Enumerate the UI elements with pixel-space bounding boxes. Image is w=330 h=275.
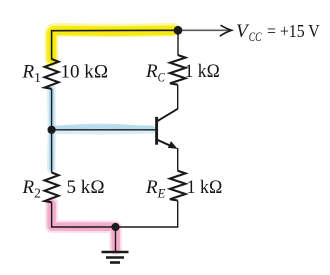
svg-text:= +15 V: = +15 V bbox=[267, 21, 320, 41]
wire: left rail R1 to R2 bbox=[51, 89, 53, 173]
resistor RC (zigzag) bbox=[170, 55, 186, 85]
wire: emitter down to RE bbox=[177, 148, 179, 171]
yellow highlighter over VCC rail bbox=[51, 30, 174, 60]
emitter lead bbox=[157, 140, 174, 148]
node dot at VCC rail bbox=[174, 26, 183, 35]
wire: base wire to transistor bbox=[52, 129, 156, 131]
svg-text:CC: CC bbox=[249, 30, 262, 44]
svg-text:RE: RE bbox=[145, 177, 166, 200]
wire: RC to collector bbox=[177, 85, 179, 109]
svg-text:10 kΩ: 10 kΩ bbox=[61, 61, 109, 82]
resistor R2 (zigzag) bbox=[45, 173, 59, 203]
node A (base divider junction) bbox=[48, 126, 56, 134]
svg-text:R2: R2 bbox=[22, 177, 41, 200]
wire: arrow line to VCC label bbox=[178, 29, 231, 31]
svg-text:1 kΩ: 1 kΩ bbox=[187, 177, 223, 198]
wire: ground stem bbox=[115, 227, 117, 251]
svg-text:1 kΩ: 1 kΩ bbox=[185, 61, 220, 82]
blue highlighter over base node wires bbox=[51, 88, 153, 169]
svg-text:5 kΩ: 5 kΩ bbox=[67, 177, 105, 198]
node dot at ground tap bbox=[111, 223, 119, 231]
pink highlighter over ground wire bbox=[52, 203, 116, 249]
ground symbol bbox=[102, 251, 129, 254]
arrowhead VCC (open) bbox=[220, 25, 232, 36]
emitter arrowhead bbox=[168, 141, 178, 149]
wire: VCC node down to RC bbox=[177, 30, 179, 55]
resistor R1 (zigzag) bbox=[45, 59, 59, 89]
svg-text:R1: R1 bbox=[22, 62, 41, 85]
base bar bbox=[155, 117, 158, 145]
svg-text:RC: RC bbox=[145, 61, 165, 84]
wire: R2 to bottom rail bbox=[52, 202, 179, 227]
wire: RE to bottom rail bbox=[177, 201, 179, 228]
wire: VCC top rail bbox=[52, 30, 178, 59]
collector lead bbox=[157, 109, 178, 122]
resistor RE (zigzag) bbox=[170, 171, 186, 201]
